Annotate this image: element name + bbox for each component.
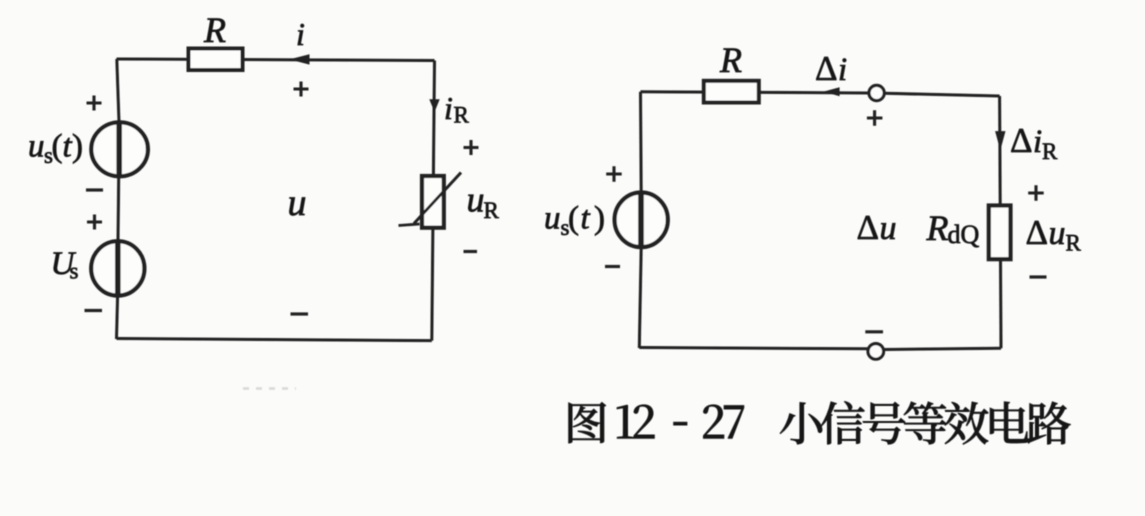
svg-text:Δ: Δ [857,208,880,247]
wire: left circuit right side [432,61,435,341]
svg-text:R: R [719,40,742,80]
wire: left circuit top [117,59,435,61]
nonlinear resistor foot [399,224,420,226]
svg-text:u: u [1049,215,1066,252]
plus (us(t) right polarity) [606,166,622,182]
wire: left circuit left side [117,59,119,122]
svg-text:i: i [296,16,305,52]
svg-text:): ) [72,129,83,165]
wire: right circuit top [641,92,870,93]
faint scan artifact [243,387,296,390]
plus (Us polarity) [87,215,102,230]
svg-text:dQ: dQ [948,220,980,249]
svg-text:R: R [1042,139,1058,164]
arrow iR (down, left circuit right side) [429,99,439,112]
resistor R (left circuit) [189,49,243,71]
svg-text:u: u [28,129,45,165]
plus (delta-uR polarity) [1028,185,1044,201]
voltage source us(t) (right circuit) [615,193,668,248]
arrow delta-iR (down) [995,131,1005,150]
voltage source Us (left circuit) [91,241,144,295]
nonlinear resistor diagonal [414,173,461,224]
svg-text:R: R [1066,231,1082,256]
svg-text:u: u [467,180,485,220]
svg-text:Δ: Δ [1010,121,1033,160]
arrow i (left circuit, pointing left) [289,54,309,64]
resistor R (right circuit) [704,81,759,103]
arrow delta-i (pointing left) [824,87,840,96]
svg-text:u: u [544,201,561,237]
svg-text:t: t [581,201,591,237]
wire: right circuit left side [639,92,643,193]
caption: figure 12-27 small-signal equivalent circuit [569,402,606,443]
plus (us(t) polarity) [87,96,102,111]
svg-text:R: R [926,208,949,248]
caption dash [673,422,687,426]
wire: left circuit bottom [117,339,432,341]
terminal node (bottom, open circle) [868,344,884,360]
svg-text:i: i [444,90,453,126]
minus (u polarity, above bottom wire) [291,312,309,315]
minus (above bottom terminal) [865,330,883,333]
voltage source us(t) (left circuit) [91,122,148,176]
wire: right circuit bottom [639,348,867,349]
svg-text:i: i [838,52,847,88]
terminal node (top, open circle) [869,85,884,100]
plus (below top terminal) [867,110,883,126]
minus (below delta-uR) [1030,275,1047,278]
svg-text:u: u [880,210,897,247]
svg-text:t: t [63,129,73,165]
minus (between sources) [86,188,103,191]
minus (below uR) [464,250,478,253]
svg-text:Δ: Δ [815,49,838,88]
svg-text:R: R [484,198,500,223]
minus (below Us) [85,309,103,312]
svg-text:Δ: Δ [1026,213,1049,252]
svg-text:u: u [288,182,307,224]
svg-text:s: s [70,259,79,284]
plus (u polarity, below top wire) [294,82,309,97]
svg-text:(: ( [52,129,63,165]
svg-text:i: i [1033,124,1042,160]
svg-text:R: R [454,103,470,128]
plus (uR polarity) [464,140,479,155]
nonlinear resistor (left circuit) [422,176,444,228]
wire: right circuit right side [1000,96,1001,348]
svg-text:R: R [203,10,226,50]
minus (below right source) [605,265,620,268]
svg-text:): ) [594,201,605,237]
resistor RdQ (right circuit) [989,206,1011,260]
svg-text:(: ( [568,201,579,237]
